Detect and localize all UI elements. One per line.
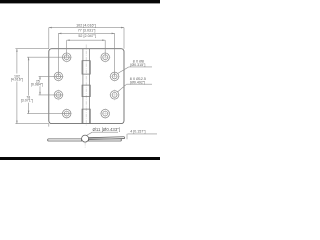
screw hole row4 right xyxy=(101,109,110,118)
label O11 leader xyxy=(86,132,118,135)
side view right leaf flat xyxy=(89,139,122,141)
side view phantom leaf xyxy=(88,137,125,140)
vertical dim 25 xyxy=(39,76,63,95)
screw hole row1 left xyxy=(62,53,71,62)
svg-text:[Ø0.315"]: [Ø0.315"] xyxy=(130,63,145,67)
vertical dim 78 xyxy=(27,57,71,113)
svg-text:77 [3.031"]: 77 [3.031"] xyxy=(78,29,96,33)
knuckle collar 2 xyxy=(82,85,90,97)
svg-text:[4.016"]: [4.016"] xyxy=(11,78,23,82)
label 8xO12.5 leader xyxy=(118,84,152,92)
barrel centerline dash-dot xyxy=(85,45,87,127)
svg-text:4 [0.157"]: 4 [0.157"] xyxy=(130,130,145,134)
hinge plan view outline xyxy=(49,49,124,124)
bottom letterbox bar xyxy=(0,157,160,160)
screw hole row3 left xyxy=(54,91,63,100)
arrowheads xyxy=(16,27,124,124)
vertical dim 102 xyxy=(15,49,48,124)
screw hole row1 right xyxy=(101,53,110,62)
knuckle collar 1 xyxy=(82,61,90,74)
svg-text:52 [2.047"]: 52 [2.047"] xyxy=(78,34,96,38)
side view pin centerline xyxy=(84,142,86,147)
top letterbox bar xyxy=(0,0,160,3)
label 4 thickness leader xyxy=(127,134,157,139)
barrel left edge xyxy=(82,49,84,124)
hole crosshairs xyxy=(53,52,120,119)
svg-text:[0.984"]: [0.984"] xyxy=(31,82,43,86)
screw hole row2 right xyxy=(110,72,119,81)
side view left leaf flat xyxy=(48,139,82,141)
dimension 52 line xyxy=(67,40,106,57)
svg-text:102 [4.016"]: 102 [4.016"] xyxy=(76,23,96,27)
knuckle collar 3 xyxy=(82,109,90,124)
svg-text:[3.071"]: [3.071"] xyxy=(21,99,33,103)
label 8xO8 leader xyxy=(118,67,152,74)
svg-text:Ø11 [Ø0.433"]: Ø11 [Ø0.433"] xyxy=(93,127,121,132)
screw hole row4 left xyxy=(62,109,71,118)
svg-text:[Ø0.492"]: [Ø0.492"] xyxy=(130,80,145,84)
dimension 77 line xyxy=(58,33,114,76)
dimension 102 width line xyxy=(49,28,124,127)
barrel right edge xyxy=(88,49,90,124)
screw hole row3 right xyxy=(110,91,119,100)
side view barrel circle xyxy=(82,135,89,142)
screw hole row2 left xyxy=(54,72,63,81)
